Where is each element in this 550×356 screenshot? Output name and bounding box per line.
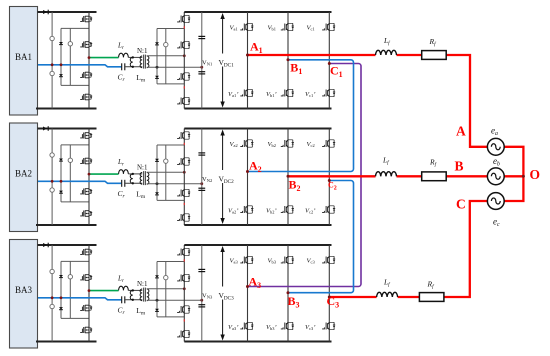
svg-text:N:1: N:1 [137,280,148,288]
svg-text:Vb2: Vb2 [268,141,276,148]
svg-text:Va1: Va1 [230,25,238,32]
svg-text:N:1: N:1 [137,47,148,55]
svg-text:Va1’: Va1’ [228,91,238,98]
svg-text:Vc1: Vc1 [307,25,315,32]
svg-text:BA3: BA3 [15,285,33,295]
svg-text:C: C [456,197,466,212]
svg-text:Vb2’: Vb2’ [266,208,277,215]
svg-text:Vc3’: Vc3’ [305,324,315,331]
svg-text:BA2: BA2 [15,169,32,179]
svg-text:B: B [455,159,464,174]
svg-text:A: A [456,124,466,139]
svg-text:O: O [530,167,541,182]
svg-text:Vc2: Vc2 [307,141,315,148]
svg-text:Vb1: Vb1 [268,25,276,32]
svg-text:BA1: BA1 [15,52,32,62]
svg-text:Vb3: Vb3 [268,258,277,265]
svg-text:Va3: Va3 [230,258,239,265]
svg-text:N:1: N:1 [137,164,148,172]
svg-text:Vc2’: Vc2’ [305,208,315,215]
svg-text:Va3’: Va3’ [228,324,238,331]
svg-text:Vc1’: Vc1’ [305,91,315,98]
svg-text:Va2: Va2 [230,141,238,148]
svg-text:Vc3: Vc3 [307,258,316,265]
svg-text:Vb3’: Vb3’ [266,324,277,331]
svg-text:Vb1’: Vb1’ [266,91,277,98]
svg-text:Va2’: Va2’ [228,208,238,215]
